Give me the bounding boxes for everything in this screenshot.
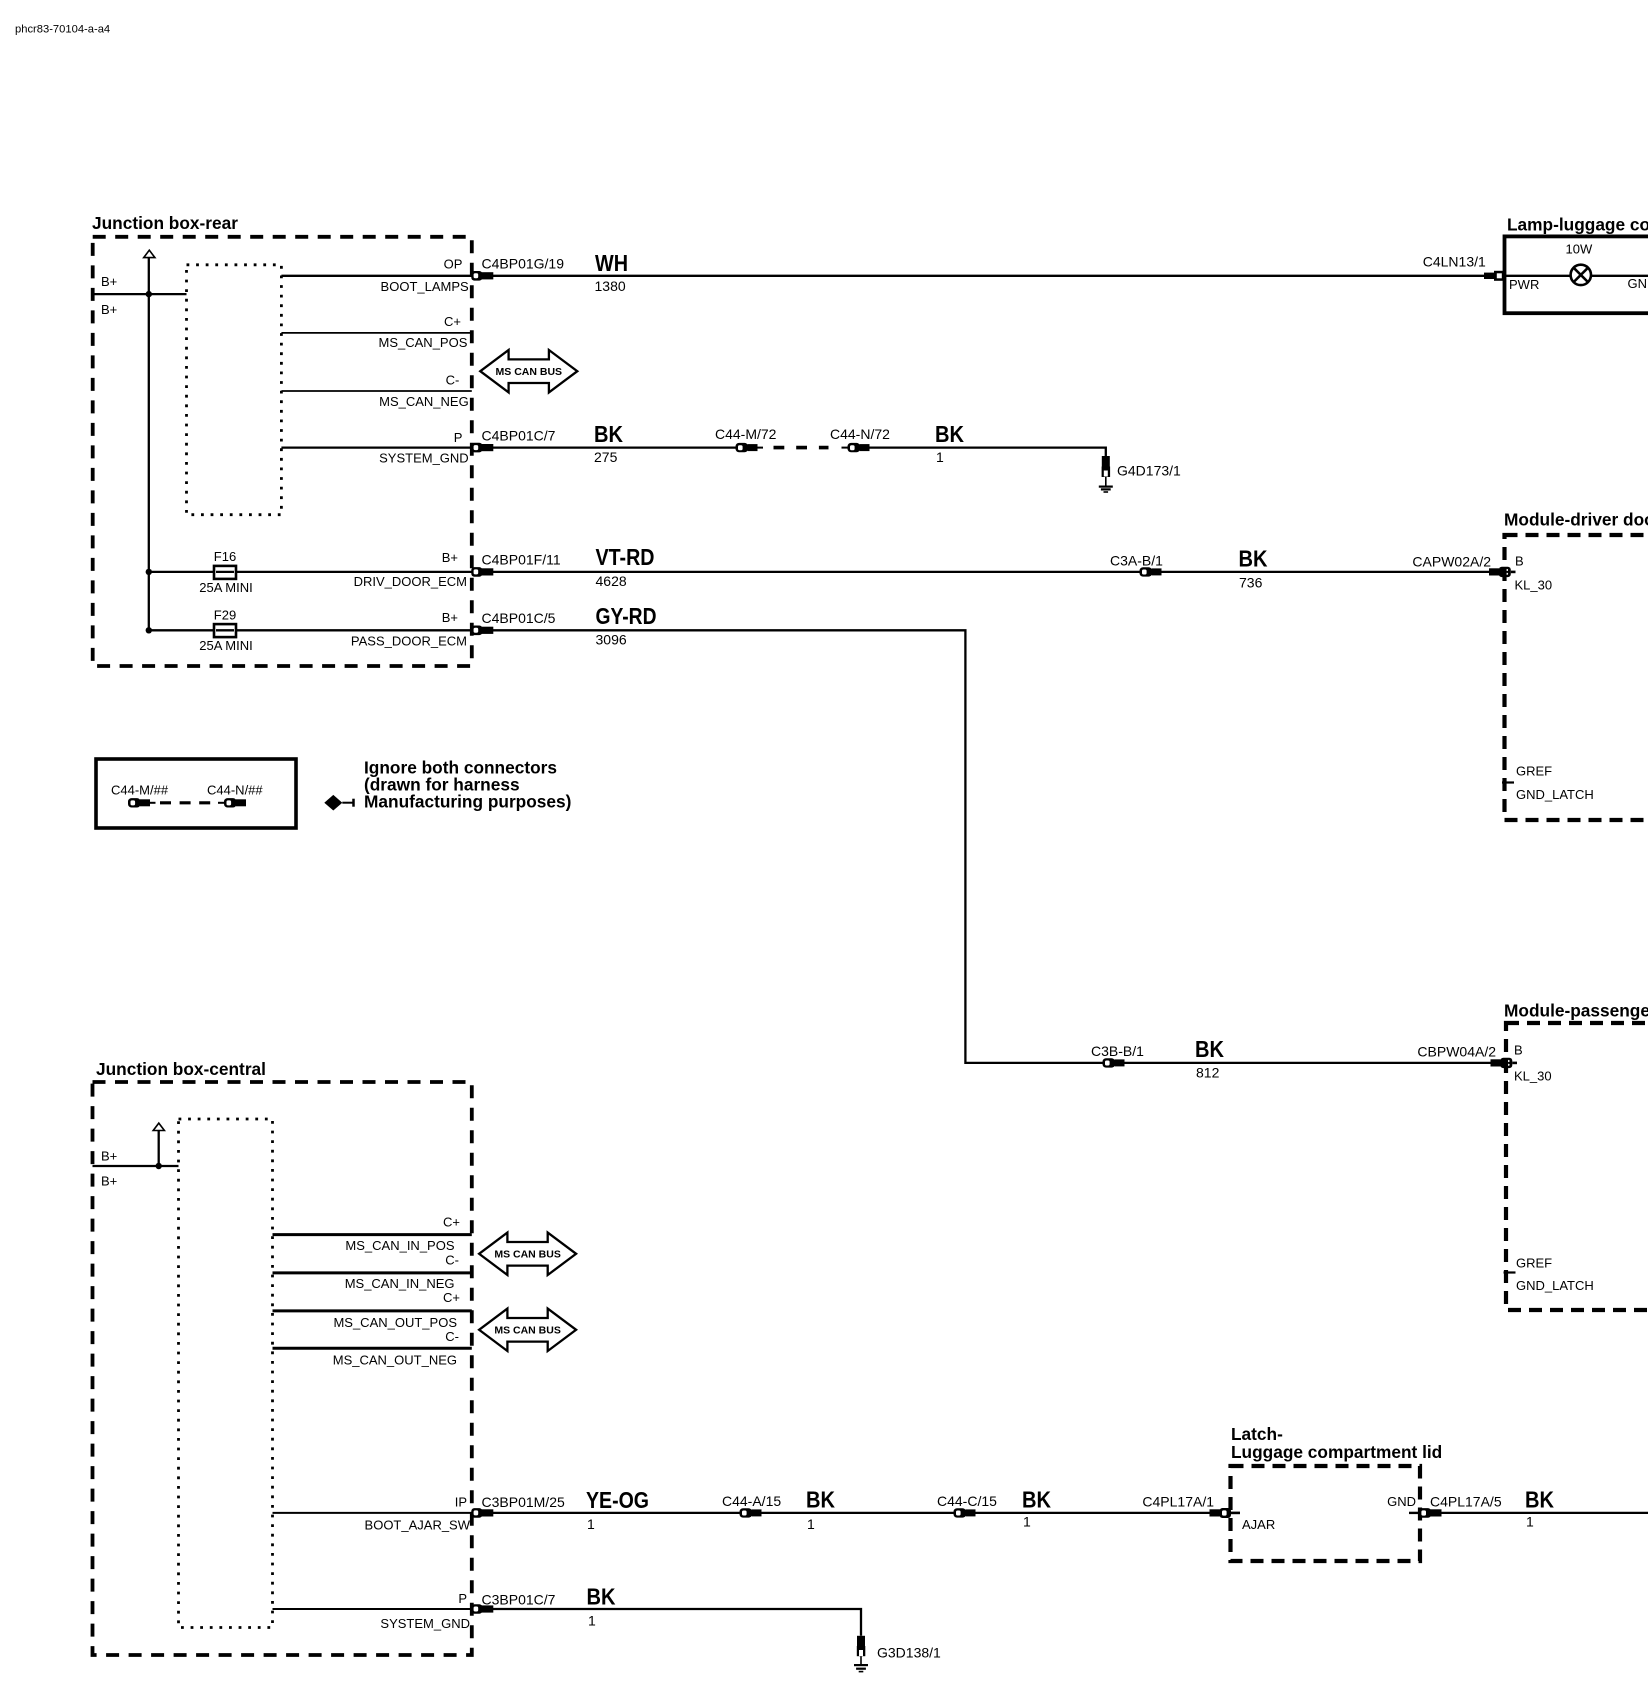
fuse F29 internal wire bbox=[216, 629, 234, 631]
svg-text:GY-RD: GY-RD bbox=[596, 603, 657, 629]
svg-text:MS_CAN_POS: MS_CAN_POS bbox=[379, 335, 468, 350]
wire BK 736 bbox=[1162, 571, 1490, 573]
junction box-central inner dotted block bbox=[179, 1119, 273, 1628]
svg-text:GND_LATCH: GND_LATCH bbox=[1516, 1278, 1594, 1293]
svg-text:MS_CAN_NEG: MS_CAN_NEG bbox=[379, 394, 469, 409]
wire YE-OG 1 bbox=[493, 1512, 740, 1514]
B+ vertical bus wire (rear) bbox=[148, 258, 150, 631]
svg-text:B+: B+ bbox=[442, 610, 458, 625]
svg-text:MS CAN BUS: MS CAN BUS bbox=[496, 366, 563, 378]
svg-text:B+: B+ bbox=[442, 550, 458, 565]
svg-text:C3A-B/1: C3A-B/1 bbox=[1110, 553, 1163, 569]
svg-text:812: 812 bbox=[1196, 1065, 1220, 1081]
svg-text:C4PL17A/1: C4PL17A/1 bbox=[1142, 1494, 1214, 1510]
latch dashed box bbox=[1231, 1466, 1421, 1561]
svg-text:25A MINI: 25A MINI bbox=[199, 580, 252, 595]
svg-text:C44-M/##: C44-M/## bbox=[111, 783, 169, 798]
MS CAN BUS arrow (rear) bbox=[480, 350, 577, 392]
svg-text:Manufacturing purposes): Manufacturing purposes) bbox=[364, 792, 571, 812]
wire BOOT_AJAR_SW inside box bbox=[273, 1512, 472, 1514]
svg-text:KL_30: KL_30 bbox=[1515, 578, 1553, 593]
svg-text:B+: B+ bbox=[101, 1174, 117, 1189]
svg-text:G4D173/1: G4D173/1 bbox=[1117, 463, 1181, 479]
svg-text:1: 1 bbox=[588, 1613, 596, 1629]
B+ horizontal wire (rear) bbox=[93, 293, 187, 295]
svg-text:B+: B+ bbox=[101, 302, 117, 317]
svg-text:CBPW04A/2: CBPW04A/2 bbox=[1417, 1044, 1496, 1060]
wire MS_CAN_POS bbox=[281, 332, 471, 334]
MS CAN BUS arrow (central out) bbox=[479, 1309, 576, 1351]
legend connector C44-N/## bbox=[218, 798, 246, 807]
svg-text:WH: WH bbox=[595, 250, 628, 276]
B+ vertical wire (central) bbox=[158, 1131, 160, 1167]
module-driver door dashed box bbox=[1505, 535, 1648, 820]
svg-text:PASS_DOOR_ECM: PASS_DOOR_ECM bbox=[351, 634, 467, 649]
svg-text:B+: B+ bbox=[101, 1149, 117, 1164]
B+ horizontal wire (central) bbox=[93, 1165, 179, 1167]
svg-text:B: B bbox=[1515, 554, 1524, 569]
svg-text:YE-OG: YE-OG bbox=[586, 1487, 649, 1513]
lamp-luggage compartment box bbox=[1505, 236, 1648, 313]
svg-text:BK: BK bbox=[935, 421, 964, 447]
ground G3D138/1 bbox=[854, 1636, 868, 1673]
svg-text:1: 1 bbox=[936, 449, 944, 465]
svg-text:Latch-: Latch- bbox=[1231, 1424, 1283, 1444]
svg-text:MS_CAN_IN_NEG: MS_CAN_IN_NEG bbox=[345, 1276, 455, 1291]
svg-text:C44-M/72: C44-M/72 bbox=[715, 426, 777, 442]
junction box-rear inner dotted block bbox=[187, 265, 282, 515]
wire BK 1 (segment 3) bbox=[976, 1512, 1210, 1514]
svg-text:MS CAN BUS: MS CAN BUS bbox=[494, 1324, 561, 1336]
fuse F16 internal wire bbox=[216, 571, 234, 573]
node junction dot B+ (rear) bbox=[146, 291, 152, 297]
svg-text:4628: 4628 bbox=[596, 573, 627, 589]
wire SYSTEM_GND inside box bbox=[281, 446, 471, 448]
legend connector C44-M/## bbox=[128, 798, 156, 807]
svg-text:BK: BK bbox=[594, 421, 623, 447]
legend note marker diamond bbox=[324, 795, 353, 811]
svg-text:C-: C- bbox=[445, 1253, 459, 1268]
wire MS_CAN_OUT_POS bbox=[273, 1309, 472, 1312]
svg-text:BK: BK bbox=[587, 1584, 616, 1610]
svg-text:MS CAN BUS: MS CAN BUS bbox=[494, 1248, 561, 1260]
svg-text:SYSTEM_GND: SYSTEM_GND bbox=[380, 1616, 470, 1631]
junction box-central dashed outline bbox=[93, 1082, 472, 1655]
svg-text:C3BP01M/25: C3BP01M/25 bbox=[482, 1494, 565, 1510]
svg-text:AJAR: AJAR bbox=[1242, 1517, 1275, 1532]
svg-text:P: P bbox=[454, 430, 463, 445]
connector C4LN13/1 bbox=[1484, 271, 1505, 281]
svg-text:C+: C+ bbox=[443, 1290, 460, 1305]
svg-text:BK: BK bbox=[1022, 1487, 1051, 1513]
wire SYSTEM_GND inside box (central) bbox=[273, 1608, 472, 1610]
svg-text:OP: OP bbox=[444, 257, 463, 272]
svg-text:C4BP01G/19: C4BP01G/19 bbox=[482, 256, 565, 272]
wire BK 812 bbox=[1125, 1062, 1491, 1064]
svg-text:Lamp-luggage compartment: Lamp-luggage compartment bbox=[1507, 215, 1648, 235]
svg-text:MS_CAN_OUT_NEG: MS_CAN_OUT_NEG bbox=[333, 1353, 457, 1368]
node junction dot F29 bbox=[146, 627, 152, 633]
fuse F29 bbox=[214, 624, 236, 637]
connector C4BP01C/5 bbox=[471, 626, 493, 636]
svg-text:275: 275 bbox=[594, 449, 618, 465]
connector C3B-B/1 bbox=[1103, 1058, 1125, 1067]
svg-text:MS_CAN_OUT_POS: MS_CAN_OUT_POS bbox=[333, 1315, 457, 1330]
svg-text:Module-passenger door: Module-passenger door bbox=[1504, 1001, 1648, 1021]
wire F29 to box edge bbox=[149, 629, 472, 631]
wire F16 to box edge bbox=[149, 571, 472, 573]
connector C44-C/15 bbox=[954, 1508, 976, 1517]
svg-text:BK: BK bbox=[1195, 1036, 1224, 1062]
svg-text:Module-driver door: Module-driver door bbox=[1504, 510, 1648, 530]
svg-text:C44-N/##: C44-N/## bbox=[207, 783, 263, 798]
connector CAPW02A/2 bbox=[1489, 567, 1516, 577]
svg-text:10W: 10W bbox=[1566, 242, 1593, 257]
svg-text:C44-C/15: C44-C/15 bbox=[937, 1493, 997, 1509]
svg-text:C-: C- bbox=[445, 1329, 459, 1344]
svg-text:C4BP01C/7: C4BP01C/7 bbox=[482, 428, 556, 444]
svg-text:GND_LATCH: GND_LATCH bbox=[1516, 787, 1594, 802]
svg-text:phcr83-70104-a-a4: phcr83-70104-a-a4 bbox=[15, 24, 110, 36]
B+ feed arrow (central) bbox=[153, 1123, 164, 1130]
svg-text:DRIV_DOOR_ECM: DRIV_DOOR_ECM bbox=[354, 574, 467, 589]
svg-text:1: 1 bbox=[587, 1516, 595, 1532]
svg-text:F29: F29 bbox=[214, 608, 236, 623]
svg-text:3096: 3096 bbox=[596, 632, 627, 648]
svg-text:BK: BK bbox=[806, 1487, 835, 1513]
svg-text:GREF: GREF bbox=[1516, 1256, 1552, 1271]
svg-text:BK: BK bbox=[1239, 546, 1268, 572]
svg-text:BOOT_LAMPS: BOOT_LAMPS bbox=[381, 279, 469, 294]
svg-text:C44-A/15: C44-A/15 bbox=[722, 1493, 781, 1509]
connector C4BP01C/7 bbox=[471, 443, 493, 453]
connector C4BP01F/11 bbox=[471, 567, 493, 577]
wire BK 1 to ground (central) bbox=[493, 1609, 861, 1636]
svg-text:B: B bbox=[1514, 1043, 1523, 1058]
svg-text:C44-N/72: C44-N/72 bbox=[830, 426, 890, 442]
svg-text:C4LN13/1: C4LN13/1 bbox=[1423, 254, 1486, 270]
connector C44-M/72 bbox=[736, 443, 764, 452]
svg-text:CAPW02A/2: CAPW02A/2 bbox=[1412, 554, 1491, 570]
svg-text:GND: GND bbox=[1387, 1494, 1416, 1509]
connector C44-N/72 bbox=[842, 443, 870, 452]
svg-text:IP: IP bbox=[455, 1495, 467, 1510]
svg-text:1: 1 bbox=[807, 1516, 815, 1532]
legend dashed harness wire bbox=[160, 801, 214, 804]
svg-text:GREF: GREF bbox=[1516, 764, 1552, 779]
svg-text:Luggage compartment lid: Luggage compartment lid bbox=[1231, 1442, 1442, 1462]
wire VT-RD 4628 bbox=[493, 571, 1140, 573]
wire MS_CAN_IN_NEG bbox=[273, 1271, 472, 1274]
connector C4PL17A/1 bbox=[1210, 1508, 1241, 1518]
lamp bulb symbol bbox=[1571, 265, 1591, 285]
svg-text:PWR: PWR bbox=[1509, 277, 1539, 292]
connector C4BP01G/19 bbox=[471, 271, 493, 281]
svg-text:B+: B+ bbox=[101, 274, 117, 289]
svg-text:Junction box-central: Junction box-central bbox=[96, 1059, 266, 1079]
dashed harness wire between C44-M and C44-N bbox=[774, 446, 829, 450]
wire WH 1380 to lamp bbox=[493, 275, 1484, 277]
wire GY-RD 3096 with bend bbox=[493, 630, 1103, 1063]
legend box bbox=[96, 759, 296, 828]
svg-text:1380: 1380 bbox=[595, 278, 626, 294]
svg-text:C4BP01C/5: C4BP01C/5 bbox=[482, 610, 556, 626]
wire MS_CAN_OUT_NEG bbox=[273, 1347, 472, 1350]
svg-text:1: 1 bbox=[1526, 1514, 1534, 1530]
ground G4D173/1 bbox=[1099, 456, 1113, 493]
svg-text:C+: C+ bbox=[444, 314, 461, 329]
wire BOOT_LAMPS inside junction box bbox=[281, 275, 471, 277]
svg-text:BOOT_AJAR_SW: BOOT_AJAR_SW bbox=[365, 1518, 471, 1533]
fuse F16 bbox=[214, 566, 236, 579]
svg-text:P: P bbox=[458, 1591, 467, 1606]
wire MS_CAN_NEG bbox=[281, 390, 471, 392]
pin tick GREF/GND_LATCH bbox=[1502, 781, 1514, 783]
svg-text:SYSTEM_GND: SYSTEM_GND bbox=[379, 450, 469, 465]
connector C3BP01C/7 bbox=[471, 1604, 493, 1614]
legend note text bbox=[364, 758, 571, 812]
svg-text:F16: F16 bbox=[214, 549, 236, 564]
connector C44-A/15 bbox=[740, 1508, 762, 1517]
junction box-rear dashed outline bbox=[93, 237, 472, 666]
svg-text:C3B-B/1: C3B-B/1 bbox=[1091, 1043, 1144, 1059]
MS CAN BUS arrow (central in) bbox=[479, 1233, 576, 1275]
wire BK 1 to ground bbox=[870, 448, 1106, 456]
svg-text:VT-RD: VT-RD bbox=[596, 544, 655, 570]
svg-text:MS_CAN_IN_POS: MS_CAN_IN_POS bbox=[345, 1238, 454, 1253]
wire BK 1 (segment 2) bbox=[762, 1512, 954, 1514]
pin tick GREF/GND_LATCH bbox=[1504, 1271, 1516, 1273]
connector C4PL17A/5 bbox=[1409, 1508, 1442, 1518]
svg-text:GND: GND bbox=[1628, 276, 1648, 291]
wire BK 275 bbox=[493, 446, 736, 448]
lamp internal wire bbox=[1505, 275, 1648, 277]
svg-text:KL_30: KL_30 bbox=[1514, 1069, 1552, 1084]
wire BK 1 (latch ground side) bbox=[1442, 1512, 1648, 1514]
connector C3BP01M/25 bbox=[471, 1508, 493, 1518]
svg-text:25A MINI: 25A MINI bbox=[199, 638, 252, 653]
B+ feed arrow (rear) bbox=[144, 250, 155, 257]
svg-text:C+: C+ bbox=[443, 1215, 460, 1230]
svg-text:BK: BK bbox=[1525, 1487, 1554, 1513]
svg-text:C4BP01F/11: C4BP01F/11 bbox=[482, 552, 561, 568]
node junction dot B+ (central) bbox=[156, 1163, 162, 1169]
svg-text:G3D138/1: G3D138/1 bbox=[877, 1645, 941, 1661]
svg-text:C4PL17A/5: C4PL17A/5 bbox=[1430, 1494, 1502, 1510]
module-passenger door dashed box bbox=[1506, 1023, 1648, 1310]
svg-text:736: 736 bbox=[1239, 575, 1263, 591]
svg-text:1: 1 bbox=[1023, 1514, 1031, 1530]
svg-text:C-: C- bbox=[446, 373, 460, 388]
connector CBPW04A/2 bbox=[1491, 1058, 1518, 1068]
connector C3A-B/1 bbox=[1140, 567, 1162, 576]
wire MS_CAN_IN_POS bbox=[273, 1233, 472, 1236]
svg-text:C3BP01C/7: C3BP01C/7 bbox=[482, 1592, 556, 1608]
svg-text:Junction box-rear: Junction box-rear bbox=[92, 213, 238, 233]
node junction dot F16 bbox=[146, 569, 152, 575]
